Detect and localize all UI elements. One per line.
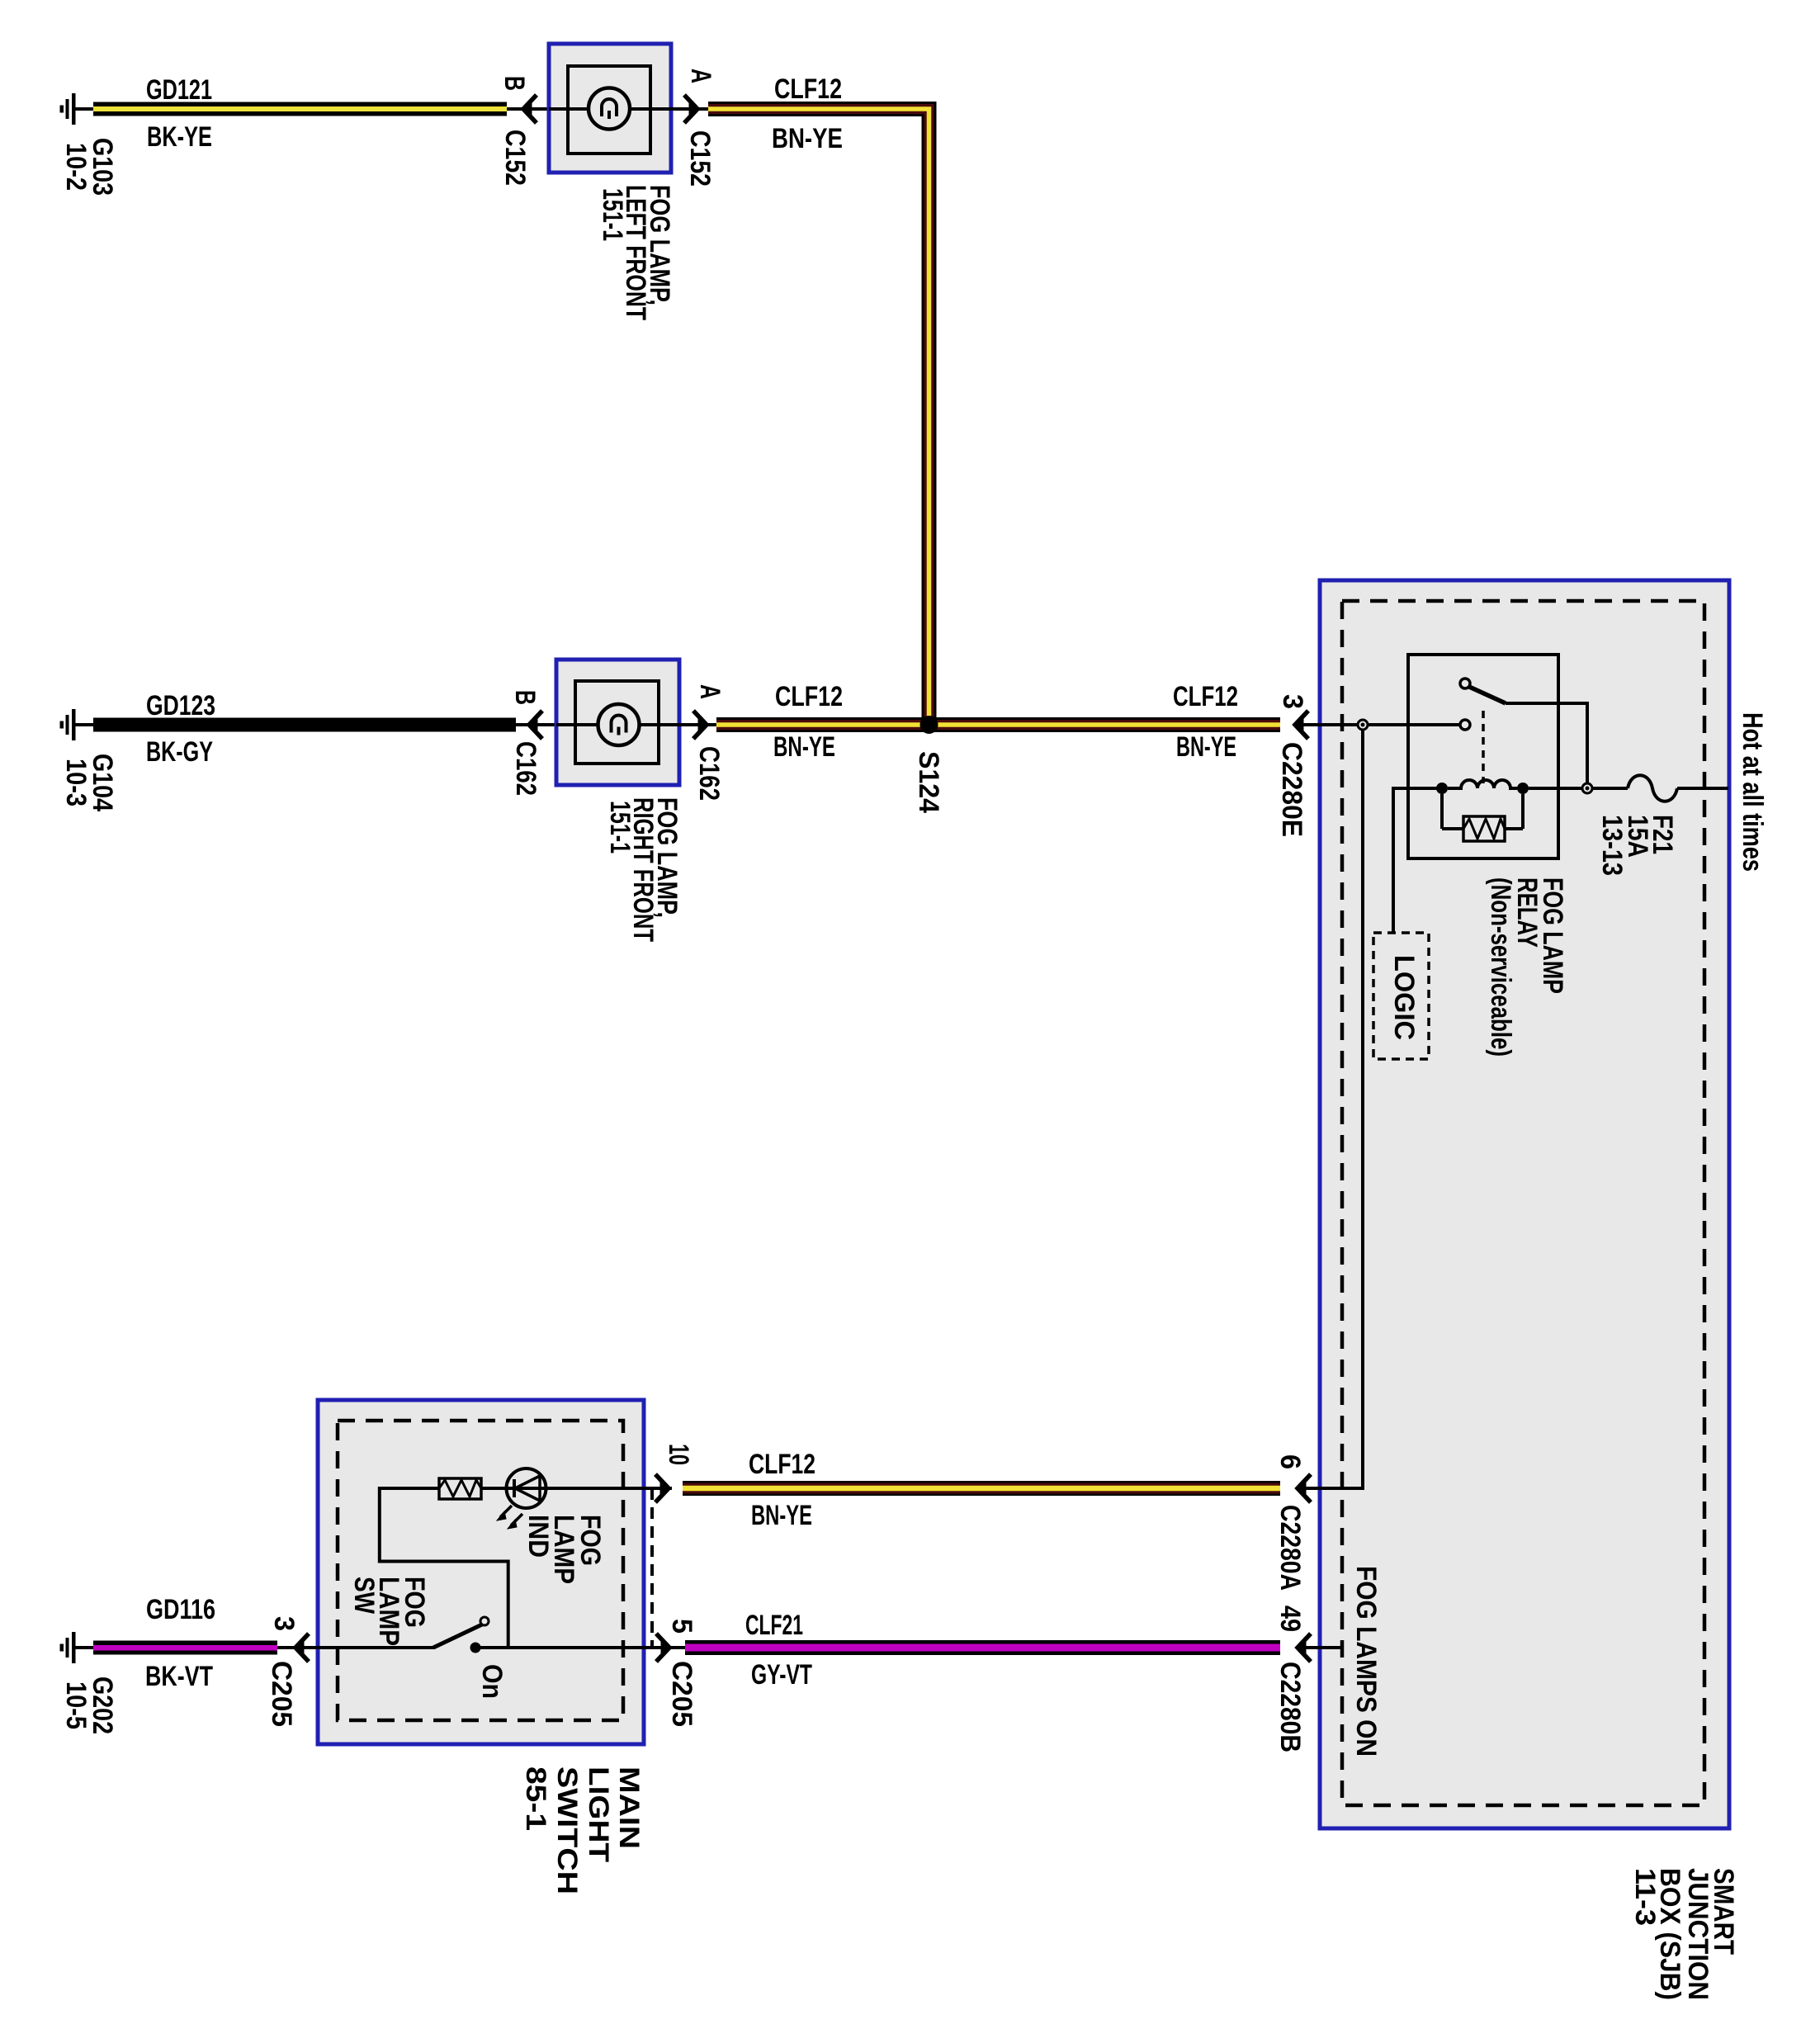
LED emission arrow 2: [508, 1514, 522, 1529]
ground G202: [60, 1632, 95, 1663]
ground G103: [60, 93, 95, 125]
svg-text:CLF12: CLF12: [775, 681, 843, 712]
connector arrow pin 49 C2280B: [1298, 1634, 1311, 1662]
box label MAIN LIGHT SWITCH 85-1: [520, 1766, 645, 1894]
node junction battery feed: [1582, 783, 1592, 793]
svg-text:3: 3: [268, 1616, 300, 1631]
relay suppression resistor: [1442, 794, 1523, 841]
svg-text:SW: SW: [348, 1577, 380, 1615]
svg-text:C205: C205: [266, 1661, 297, 1727]
svg-text:BN-YE: BN-YE: [772, 123, 843, 154]
wire CLF12 BN-YE bottom run: [683, 1481, 1280, 1496]
wire GD116 BK-VT: [93, 1641, 277, 1655]
svg-text:(Non-serviceable): (Non-serviceable): [1485, 877, 1516, 1057]
svg-text:On: On: [476, 1664, 508, 1699]
svg-text:3: 3: [1277, 694, 1308, 709]
relay label FOG LAMP RELAY (Non-serviceable): [1485, 877, 1568, 1057]
fog lamp indicator LED: [497, 1468, 546, 1529]
connector arrow pin 5 C205: [644, 1634, 685, 1662]
svg-text:MAIN: MAIN: [613, 1766, 645, 1849]
svg-text:GD116: GD116: [146, 1594, 215, 1625]
relay arm: [1469, 687, 1506, 703]
fog lamp right front box: [556, 660, 679, 785]
relay NO contact: [1460, 720, 1470, 730]
connector arrow pin 3 C205: [277, 1634, 319, 1662]
fuse F21 15A: [1628, 775, 1677, 802]
fuse label F21 15A 13-13: [1596, 815, 1678, 876]
wire fuse to hot feed: [1677, 787, 1728, 790]
svg-text:10: 10: [663, 1444, 694, 1465]
wire through indicator to pin 10: [481, 1487, 672, 1490]
svg-text:GD123: GD123: [146, 690, 215, 721]
wire switch input: [295, 1646, 435, 1649]
box label SMART JUNCTION BOX (SJB) 11-3: [1629, 1868, 1739, 2000]
component label FOG LAMP, RIGHT FRONT 151-1: [604, 797, 683, 942]
svg-text:SWITCH: SWITCH: [551, 1766, 583, 1894]
splice S124: [920, 716, 938, 734]
svg-text:GY-VT: GY-VT: [751, 1659, 812, 1691]
indicator label FOG LAMP IND: [522, 1515, 606, 1584]
node junction on pin3 feed: [1358, 720, 1368, 730]
svg-text:CLF12: CLF12: [1173, 681, 1238, 712]
fog lamp left front bulb: [589, 88, 630, 130]
wire GD121 BK-YE: [93, 102, 507, 116]
relay actuator dashed link: [1482, 711, 1485, 783]
connector arrow pin 10: [655, 1474, 669, 1502]
connector dashed link C205: [650, 1488, 654, 1648]
wire switch output: [475, 1646, 669, 1649]
ground label G104 10-3: [60, 754, 118, 811]
svg-text:A: A: [694, 684, 726, 699]
connector arrow pin 6 C2280A: [1298, 1474, 1311, 1502]
wire pin 49 stub: [1298, 1646, 1342, 1649]
connector arrow pin B C162: [516, 711, 557, 739]
svg-text:B: B: [499, 76, 530, 91]
svg-text:BK-GY: BK-GY: [146, 736, 213, 768]
svg-text:CLF12: CLF12: [774, 73, 842, 105]
svg-text:BK-VT: BK-VT: [145, 1661, 213, 1692]
svg-text:BN-YE: BN-YE: [751, 1500, 812, 1531]
ground label G202 10-5: [60, 1676, 118, 1734]
svg-text:A: A: [685, 69, 716, 83]
ground G104: [60, 709, 95, 740]
wire relay arm to battery branch: [1506, 703, 1587, 783]
svg-text:10-5: 10-5: [60, 1681, 92, 1729]
wire indicator branch: [380, 1488, 508, 1646]
main light switch dashed border: [338, 1421, 623, 1720]
svg-text:FOG LAMPS ON: FOG LAMPS ON: [1350, 1566, 1382, 1757]
svg-text:10-3: 10-3: [60, 759, 92, 806]
wire pin3 node down to pin 6 exit: [1298, 730, 1363, 1488]
switch contact node: [470, 1643, 481, 1653]
smart junction box outline: [1320, 580, 1729, 1828]
svg-text:5: 5: [666, 1619, 697, 1634]
wire GD123 BK-GY: [93, 718, 516, 732]
smart junction box dashed border: [1342, 601, 1704, 1805]
svg-text:JUNCTION: JUNCTION: [1682, 1868, 1714, 2000]
svg-text:BN-YE: BN-YE: [1176, 731, 1236, 763]
wire CLF12 BN-YE middle run: [716, 717, 1280, 732]
svg-text:10-2: 10-2: [60, 143, 92, 191]
svg-text:Hot at all times: Hot at all times: [1737, 712, 1768, 872]
svg-text:LIGHT: LIGHT: [583, 1766, 614, 1862]
svg-text:11-3: 11-3: [1629, 1868, 1661, 1926]
LED emission arrow 1: [497, 1506, 512, 1520]
svg-text:C205: C205: [666, 1661, 697, 1727]
svg-text:IND: IND: [522, 1515, 554, 1558]
svg-text:CLF21: CLF21: [745, 1610, 803, 1641]
relay coil: [1393, 780, 1582, 794]
svg-text:85-1: 85-1: [520, 1766, 551, 1831]
relay common contact: [1460, 679, 1470, 688]
svg-text:151-1: 151-1: [604, 801, 636, 854]
svg-text:C152: C152: [499, 130, 531, 186]
logic box: [1373, 933, 1429, 1059]
svg-text:13-13: 13-13: [1596, 815, 1628, 876]
indicator resistor: [439, 1478, 481, 1499]
main light switch box: [318, 1400, 644, 1744]
svg-text:C152: C152: [684, 130, 716, 187]
svg-text:C162: C162: [693, 746, 725, 801]
svg-text:151-1: 151-1: [597, 188, 628, 241]
switch label FOG LAMP SW: [348, 1577, 430, 1646]
wire CLF12 BN-YE top run with corner down to S124: [708, 109, 929, 725]
svg-text:B: B: [509, 690, 541, 705]
svg-text:49: 49: [1274, 1606, 1306, 1632]
component label FOG LAMP, LEFT FRONT 151-1: [597, 185, 675, 320]
fog lamp relay box: [1408, 655, 1558, 858]
wire CLF21 GY-VT: [685, 1640, 1280, 1655]
fog lamp left front box: [549, 44, 671, 173]
svg-text:C162: C162: [510, 741, 541, 796]
svg-text:LOGIC: LOGIC: [1388, 955, 1420, 1040]
wire junction to fuse: [1592, 787, 1628, 790]
svg-text:6: 6: [1274, 1454, 1306, 1469]
connector arrow pin A C152: [671, 95, 708, 123]
svg-text:S124: S124: [913, 751, 944, 813]
svg-text:C2280A: C2280A: [1274, 1505, 1306, 1591]
svg-text:GD121: GD121: [146, 74, 212, 106]
connector arrow pin A C162: [679, 711, 716, 739]
svg-text:C2280E: C2280E: [1276, 742, 1307, 837]
ground label G103 10-2: [60, 138, 118, 196]
wire coil to logic: [1392, 787, 1395, 933]
wire pin3 junction to relay contact: [1368, 723, 1460, 726]
fog lamp switch arm: [433, 1617, 489, 1648]
connector arrow pin 3 C2280E: [1295, 711, 1358, 739]
fog lamp right front bulb: [598, 704, 640, 745]
svg-text:BK-YE: BK-YE: [147, 121, 212, 153]
svg-text:BN-YE: BN-YE: [773, 731, 835, 763]
connector arrow pin B C152: [507, 95, 550, 123]
svg-text:CLF12: CLF12: [749, 1449, 815, 1480]
svg-text:C2280B: C2280B: [1274, 1662, 1306, 1752]
